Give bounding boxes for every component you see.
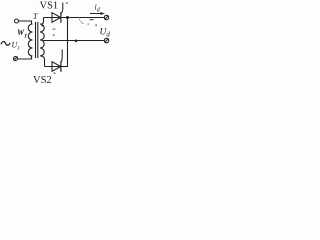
svg-text:VS2: VS2 [33, 75, 52, 84]
terminal right bottom [104, 38, 108, 42]
transformer secondary winding [40, 24, 44, 56]
thyristor VS1 cathode bar [60, 12, 62, 23]
terminal left top [15, 19, 19, 23]
plus mark near Ud [90, 19, 94, 20]
wire right vertical [67, 18, 69, 68]
wire center tap to terminal [43, 40, 105, 42]
current arrow i_d [90, 12, 105, 15]
thyristor VS1 triangle [52, 13, 61, 23]
wire bottom (anode side) [45, 66, 61, 68]
svg-text:VS1: VS1 [40, 0, 59, 11]
wire bottom (cathode to vertical) [61, 66, 68, 68]
wire top (cathode to terminal) [61, 17, 105, 19]
scan speckles [53, 2, 97, 74]
secondary top lead [41, 18, 44, 25]
thyristor VS1 gate [61, 3, 63, 14]
wire primary bottom lead [18, 56, 32, 60]
terminal right top [104, 15, 108, 19]
node dot on center wire [75, 40, 78, 43]
thyristor VS2 gate [61, 50, 62, 63]
terminal left bottom [14, 57, 18, 61]
secondary bottom lead [41, 56, 45, 67]
svg-text:T: T [33, 12, 38, 21]
wire top (anode side) [44, 17, 61, 19]
transformer primary winding W1 [28, 24, 32, 56]
transformer core [35, 22, 37, 58]
secondary polarity dot [41, 25, 43, 27]
junction node at top [66, 16, 69, 19]
thyristor VS2 triangle [52, 62, 61, 72]
AC tilde symbol [1, 42, 10, 46]
wire primary top lead [19, 21, 32, 25]
thyristor VS2 cathode bar [60, 61, 62, 72]
